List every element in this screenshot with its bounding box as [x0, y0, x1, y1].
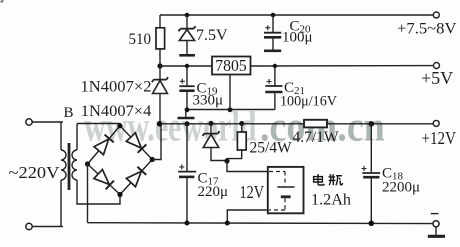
resistor R 4.7/1W — [293, 120, 339, 146]
zener diode 7.5V — [179, 13, 229, 55]
svg-text:12V: 12V — [240, 182, 265, 202]
svg-text:25/4W: 25/4W — [250, 140, 293, 157]
bridge rectifier 1N4007x4 — [88, 126, 153, 195]
wire +12V rail — [157, 121, 433, 127]
resistor R 510 — [129, 15, 165, 66]
battery 12V 1.2Ah — [240, 167, 352, 213]
resistor R 25/4W — [227, 124, 292, 162]
diode D (battery discharge) — [203, 124, 228, 161]
wire ground bus (C19 / 7805 GND / C21) — [185, 107, 275, 112]
svg-text:2200μ: 2200μ — [382, 180, 420, 196]
svg-text:330μ: 330μ — [193, 93, 224, 109]
svg-text:4.7/1W: 4.7/1W — [293, 129, 339, 146]
capacitor C20 — [264, 13, 313, 50]
svg-text:7805: 7805 — [215, 56, 247, 75]
ground (zener 7.5V) — [179, 54, 195, 57]
terminal +5V — [421, 63, 453, 89]
node bridge right — [150, 157, 155, 162]
wire secondary bottom to bridge AC2 — [77, 180, 120, 204]
label ~220V — [9, 163, 61, 182]
transformer core — [68, 143, 71, 190]
wire bridge DC- to bottom rail — [87, 164, 89, 223]
node bridge top — [117, 123, 122, 128]
svg-text:510: 510 — [129, 31, 152, 48]
svg-text:1N4007×4: 1N4007×4 — [81, 103, 152, 120]
bridge diode D4 (bottom to right) — [126, 167, 146, 187]
capacitor C17 — [178, 124, 228, 223]
svg-text:+7.5~8V: +7.5~8V — [397, 21, 457, 38]
node bridge bottom — [117, 192, 122, 197]
svg-text:+5V: +5V — [421, 68, 453, 88]
ground (C20) — [264, 49, 281, 52]
svg-text:B: B — [64, 105, 74, 121]
svg-text:~220V: ~220V — [9, 163, 61, 182]
bridge diode D1 (left to top) — [94, 134, 114, 154]
svg-text:100μ/16V: 100μ/16V — [280, 94, 337, 110]
scan corner artifact — [0, 0, 4, 3]
svg-text:1N4007×2: 1N4007×2 — [81, 79, 152, 96]
ground (bus) — [178, 111, 195, 118]
capacitor C19 — [179, 64, 223, 110]
wire +5V rail — [251, 65, 434, 67]
node battery + junction — [224, 158, 267, 171]
bridge diode D3 (left to bottom) — [94, 169, 114, 189]
label B (transformer) — [64, 105, 74, 121]
terminal +7.5~8V — [397, 12, 457, 38]
terminal ~220V top — [26, 119, 63, 125]
diode D 1N4007x2 — [81, 66, 169, 124]
capacitor C21 — [265, 64, 337, 110]
node bridge left — [85, 161, 90, 166]
wire bottom rail — [88, 221, 434, 227]
regulator U 7805 — [212, 56, 251, 75]
wire top rail +7.5~8V — [160, 14, 433, 16]
label 1N4007x4 — [81, 103, 152, 120]
ground (output terminal) — [428, 235, 445, 238]
node A (7805 input junction) — [157, 63, 212, 68]
watermark — [84, 105, 385, 151]
svg-text:220μ: 220μ — [198, 184, 229, 200]
transformer B secondary — [72, 124, 77, 181]
label 电瓶 (drawn glyphs) — [314, 174, 343, 185]
svg-text:+12V: +12V — [422, 128, 457, 148]
wire battery - to bottom rail — [227, 210, 267, 223]
transformer B primary — [61, 122, 66, 227]
capacitor C18 — [362, 124, 421, 223]
svg-text:100μ: 100μ — [282, 30, 313, 46]
terminal +12V — [422, 120, 457, 148]
terminal ~220V bottom — [26, 223, 63, 229]
svg-text:7.5V: 7.5V — [196, 27, 228, 44]
bridge diode D2 (top to right) — [126, 133, 146, 153]
wire secondary top to bridge AC1 — [77, 124, 120, 127]
terminal ground (-) — [431, 214, 439, 235]
svg-text:1.2Ah: 1.2Ah — [311, 192, 351, 209]
wire bridge DC+ to +12V rail — [152, 124, 161, 160]
wire 7805 GND pin — [229, 75, 231, 110]
